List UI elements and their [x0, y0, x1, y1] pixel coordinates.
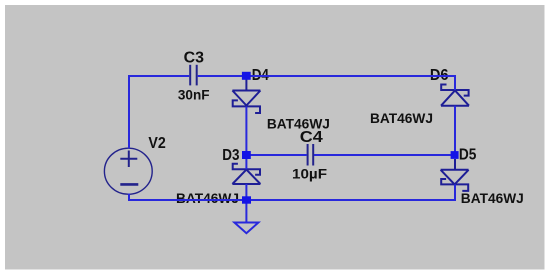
wire: D6 anode to node D5 — [454, 106, 456, 152]
value label BAT46WJ (D5) — [461, 190, 524, 206]
node D5 junction square — [451, 151, 459, 159]
label D5 — [459, 147, 477, 164]
svg-text:BAT46WJ: BAT46WJ — [176, 190, 239, 206]
wire: bottom rail — [129, 199, 456, 201]
label V2 — [148, 135, 165, 152]
voltage source V2 — [104, 148, 152, 194]
wire: D3 anode to bottom rail junction — [245, 184, 247, 197]
ground — [234, 200, 258, 233]
svg-text:V2: V2 — [148, 135, 165, 152]
svg-text:10µF: 10µF — [292, 165, 327, 181]
wire: middle rail right segment (C4 right plate to node D5) — [314, 154, 455, 156]
wire: D5 cathode to bottom rail end — [454, 184, 456, 201]
label C4 — [300, 129, 323, 146]
wire: node D3 to D3 cathode bar — [245, 158, 247, 170]
label D4 — [252, 67, 269, 84]
wire: D6 cathode stub from top rail — [454, 75, 456, 90]
svg-text:BAT46WJ: BAT46WJ — [461, 190, 524, 206]
schottky diode D3 (anode down, cathode up) — [232, 164, 260, 184]
svg-text:BAT46WJ: BAT46WJ — [370, 110, 433, 126]
node: bottom rail / ground junction square — [242, 196, 251, 203]
capacitor C4 — [308, 144, 314, 166]
svg-text:30nF: 30nF — [178, 87, 210, 103]
node D3 junction square — [242, 151, 251, 159]
label D3 — [222, 147, 239, 164]
wire: left vertical from top rail to V2 plus terminal — [128, 75, 130, 148]
value label BAT46WJ (D4) — [267, 115, 330, 131]
svg-text:D5: D5 — [459, 147, 477, 164]
wire: V2 minus terminal stub to bottom rail — [128, 194, 130, 202]
node D4 junction square — [242, 72, 251, 80]
wire: middle rail left segment (node D3 to C4 left plate) — [246, 154, 306, 156]
value label BAT46WJ (D3) — [176, 190, 239, 206]
wire: top rail right segment (C3 right plate to D6 corner) — [198, 75, 455, 77]
svg-text:C3: C3 — [184, 50, 205, 67]
value label BAT46WJ (D6) — [370, 110, 433, 126]
capacitor C3 — [190, 65, 197, 86]
svg-text:C4: C4 — [300, 129, 323, 146]
schottky diode D6 (anode down, cathode up) — [441, 85, 469, 106]
value label 30nF — [178, 87, 210, 103]
wire: top rail left segment (corner to C3 left plate) — [129, 75, 189, 77]
label C3 — [184, 50, 205, 67]
schottky diode D5 (anode up, cathode down) — [441, 159, 469, 191]
wire: D4 cathode to node D3 — [245, 106, 247, 152]
value label 10µF — [292, 165, 327, 181]
schottky diode D4 (anode up, cathode down) — [232, 80, 260, 114]
svg-text:D3: D3 — [222, 147, 239, 164]
label D6 — [430, 67, 449, 84]
